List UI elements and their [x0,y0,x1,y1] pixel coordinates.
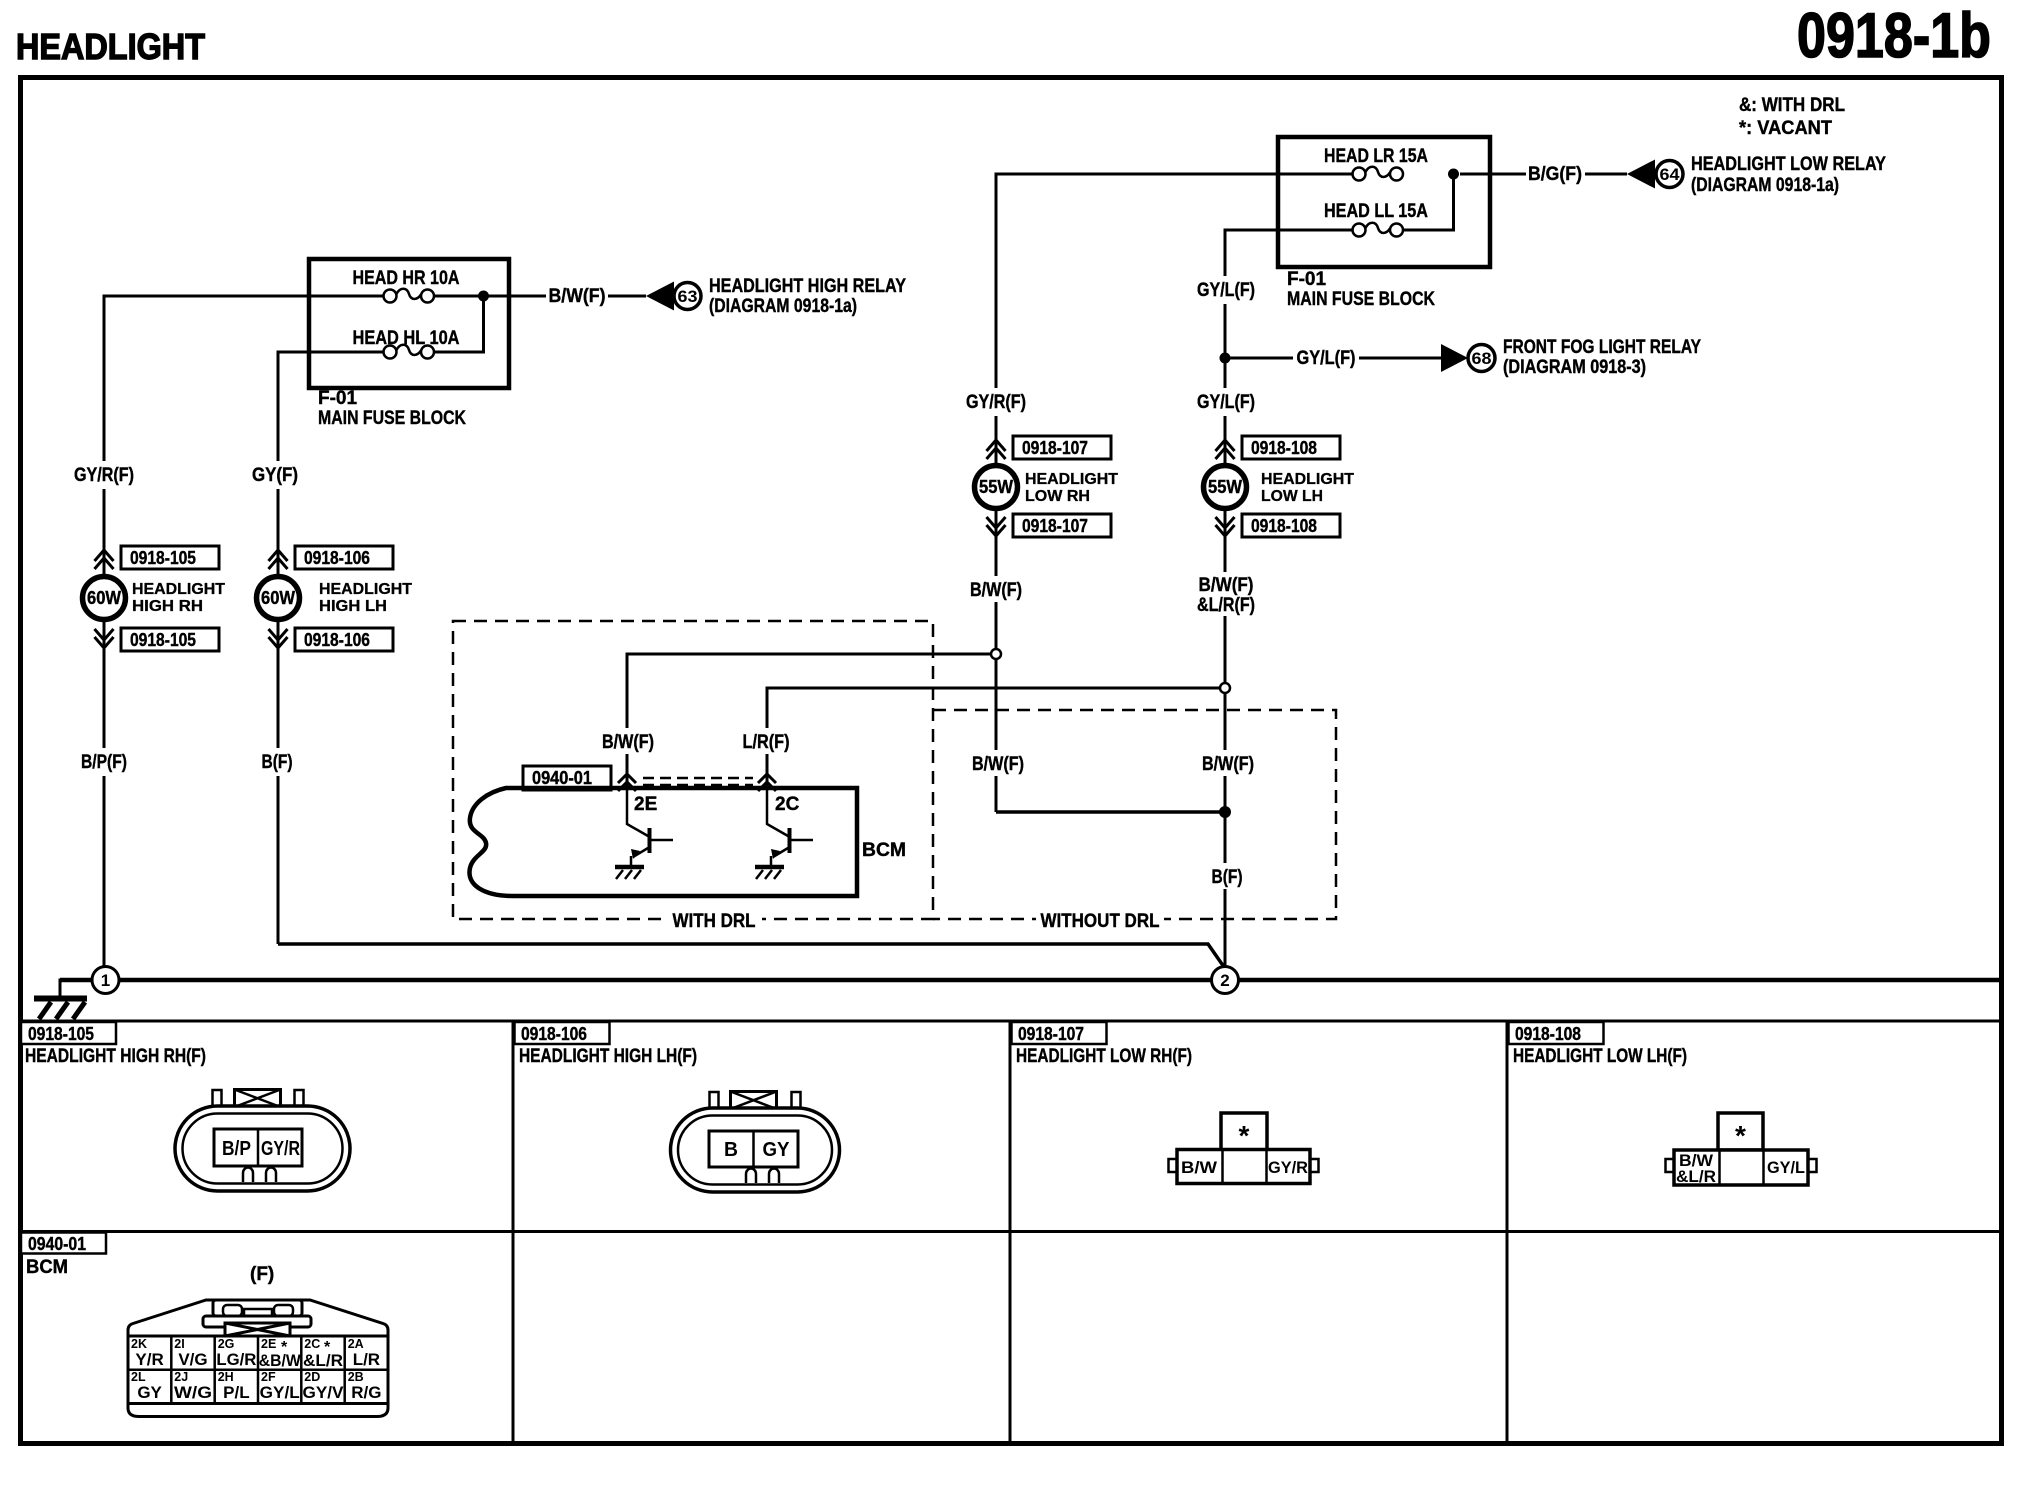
svg-text:0918-107: 0918-107 [1022,438,1088,458]
svg-text:GY/R: GY/R [261,1138,300,1160]
bulb headlight high RH 60W [83,577,226,620]
table column divider 2 [1009,1021,1012,1443]
tag box 0940-01 [21,1233,106,1254]
transistor Q 2C [755,790,813,879]
svg-text:GY: GY [763,1139,791,1161]
junction dot low RH meets low LH [1219,806,1231,818]
svg-text:BCM: BCM [26,1257,68,1278]
svg-text:V/G: V/G [178,1350,207,1369]
svg-text:0918-106: 0918-106 [304,630,370,650]
svg-text:0918-107: 0918-107 [1018,1024,1084,1044]
svg-text:HIGH LH: HIGH LH [319,598,387,615]
connector box 0918-105 lower [121,628,219,651]
svg-text:0918-107: 0918-107 [1022,516,1088,536]
svg-text:HEADLIGHT HIGH RELAY: HEADLIGHT HIGH RELAY [709,276,906,297]
svg-text:0918-108: 0918-108 [1251,438,1317,458]
wire label B/W(F) low RH [984,576,1009,602]
connector box 0918-107 upper [1013,436,1111,459]
svg-text:HEADLIGHT: HEADLIGHT [1025,471,1119,488]
svg-text:0918-105: 0918-105 [130,630,196,650]
svg-text:0918-108: 0918-108 [1515,1024,1581,1044]
svg-text:2F: 2F [261,1370,276,1384]
relay arrow 64 headlight low relay [1627,154,1886,196]
fuse HEAD HR 10A [353,268,460,303]
svg-text:0918-108: 0918-108 [1251,516,1317,536]
svg-text:0940-01: 0940-01 [532,768,592,788]
svg-text:HEADLIGHT HIGH RH(F): HEADLIGHT HIGH RH(F) [25,1046,206,1067]
table row divider [18,1230,2001,1233]
svg-text:2B: 2B [348,1370,364,1384]
wire label B(F) low LH [1214,863,1238,889]
relay arrow 63 headlight high relay [646,276,906,317]
svg-text:B/P(F): B/P(F) [81,752,127,773]
table top line [18,1020,2001,1023]
latch lower with bowtie [203,1316,311,1327]
connector drawing 0918-108 (T 3-pin) [1666,1113,1817,1186]
svg-text:LG/R: LG/R [216,1350,256,1369]
connector box 0940-01 [523,766,611,790]
connector chevrons at BCM pin 2C [758,774,776,791]
fuse block F-01 (left) [309,259,509,388]
wire low RH to junction on low LH line [996,810,1225,814]
fuse block F-01 (right) [1278,137,1490,267]
wire B/W(F) from BCM 2E to low RH [627,654,991,790]
wire label B(F) high LH [266,748,290,776]
svg-text:*: * [1735,1120,1746,1151]
wire label GY/L(F) on fog branch [1293,346,1359,370]
connector drawing 0918-107 (T 3-pin) [1169,1113,1319,1184]
fuse HEAD HL 10A [353,328,460,359]
connector drawing 0918-106 (oval 2-pin) [671,1092,840,1193]
svg-text:GY/R: GY/R [1268,1158,1308,1177]
ground stem wire [60,980,91,996]
svg-text:64: 64 [1660,165,1681,184]
pin grid [128,1336,388,1404]
svg-text:&L/R(F): &L/R(F) [1197,595,1255,616]
junction dot fog relay branch [1220,353,1231,364]
bulb headlight low RH 55W [975,466,1119,509]
svg-text:GY/R(F): GY/R(F) [74,465,134,486]
bulb headlight high LH 60W [257,577,413,620]
svg-text:B/W(F): B/W(F) [602,732,654,753]
connector chevrons below bulb high RH [95,629,114,648]
svg-text:60W: 60W [261,588,295,608]
node junction low RH to DRL wire (open) [991,649,1001,659]
connector box 0918-106 upper [295,546,393,569]
svg-text:63: 63 [678,287,698,306]
svg-text:GY/L: GY/L [1767,1158,1805,1177]
wire label L/R(F) at 2C [755,728,780,754]
connector drawing 0918-105 (oval 2-pin) [175,1090,350,1192]
wire label B/W(F) low RH lower [984,750,1009,776]
svg-text:F-01: F-01 [318,388,358,409]
svg-text:0918-106: 0918-106 [304,548,370,568]
svg-text:2K: 2K [131,1337,147,1351]
wire L/R(F) from BCM 2C to low LH [767,688,1220,790]
ground symbol (chassis earth) [34,999,87,1020]
node junction low LH to DRL wire (open) [1220,683,1230,693]
BCM box [469,788,857,896]
junction dot fuse1 output [478,291,489,302]
svg-text:GY/L: GY/L [260,1383,300,1402]
svg-text:BCM: BCM [862,840,906,861]
tag box 0918-106 [515,1022,610,1044]
svg-text:HEADLIGHT HIGH LH(F): HEADLIGHT HIGH LH(F) [519,1046,697,1067]
connector box 0918-108 lower [1242,514,1340,537]
ground bus wire [60,978,2001,983]
svg-text:HEADLIGHT LOW RH(F): HEADLIGHT LOW RH(F) [1016,1046,1192,1067]
transistor Q 2E [615,790,673,879]
connector chevrons above bulb high RH [95,550,114,569]
svg-text:P/L: P/L [223,1383,249,1402]
svg-text:(DIAGRAM 0918-1a): (DIAGRAM 0918-1a) [1691,175,1839,196]
connector box 0918-105 upper [121,546,219,569]
svg-text:B/W(F): B/W(F) [972,754,1024,775]
svg-text:2D: 2D [304,1370,320,1384]
svg-text:HEADLIGHT LOW LH(F): HEADLIGHT LOW LH(F) [1513,1046,1687,1067]
svg-text:&L/R: &L/R [1676,1167,1716,1186]
wire label GY/R(F) low RH [985,388,1009,416]
svg-text:2: 2 [1220,971,1229,990]
dashed box WITHOUT DRL [933,710,1336,932]
dashed connector link between 2E and 2C [643,778,753,785]
wire label B/W(F) &L/R(F) low LH [1213,572,1238,616]
wire fuse HEAD HL to junction [434,296,484,352]
svg-text:WITHOUT DRL: WITHOUT DRL [1041,911,1160,932]
svg-text:1: 1 [101,971,110,990]
svg-text:L/R(F): L/R(F) [743,732,790,753]
relay arrow 68 front fog light relay [1441,337,1701,378]
svg-text:55W: 55W [979,477,1013,497]
svg-text:LOW LH: LOW LH [1261,488,1323,505]
svg-text:B/G(F): B/G(F) [1528,164,1582,185]
wire label GY/L(F) low LH upper [1214,276,1238,304]
svg-text:GY: GY [137,1383,162,1402]
tag box 0918-105 [21,1022,116,1044]
wire label GY(F) high LH [267,461,291,489]
svg-text:GY(F): GY(F) [252,465,298,486]
wire fuse HEAD LL to junction [1403,174,1454,230]
svg-text:R/G: R/G [351,1383,381,1402]
svg-text:W/G: W/G [174,1383,212,1402]
svg-text:GY/L(F): GY/L(F) [1197,392,1255,413]
svg-text:HEADLIGHT: HEADLIGHT [16,26,205,67]
svg-text:(F): (F) [250,1264,274,1285]
svg-text:LOW RH: LOW RH [1025,488,1090,505]
svg-text:GY/R(F): GY/R(F) [966,392,1026,413]
svg-text:&B/W: &B/W [259,1351,302,1370]
svg-text:HEAD HR 10A: HEAD HR 10A [353,268,460,289]
svg-text:MAIN FUSE BLOCK: MAIN FUSE BLOCK [1287,289,1435,310]
wire GY/L(F) to front fog light relay 68 [1225,357,1441,360]
svg-text:2C: 2C [775,794,800,815]
wire label GY/L(F) low LH lower [1214,388,1238,416]
svg-text:0918-105: 0918-105 [28,1024,94,1044]
wire label GY/R(F) high RH [93,461,117,489]
wire label B/W(F) [546,284,608,307]
fuse HEAD LL 15A [1324,201,1428,237]
connector box 0918-106 lower [295,628,393,651]
bottom lip [128,1404,388,1417]
svg-text:&: WITH DRL: &: WITH DRL [1739,95,1845,116]
svg-text:MAIN FUSE BLOCK: MAIN FUSE BLOCK [318,408,466,429]
svg-text:2I: 2I [174,1337,184,1351]
connector chevrons at BCM pin 2E [618,774,636,791]
svg-text:0918-1b: 0918-1b [1797,1,1991,71]
svg-text:2L: 2L [131,1370,146,1384]
wire label B/P(F) [93,748,117,776]
svg-text:HEADLIGHT: HEADLIGHT [319,581,413,598]
svg-text:2E: 2E [634,794,657,815]
svg-text:WITH DRL: WITH DRL [673,911,756,932]
connector chevrons below bulb low RH [987,517,1006,536]
svg-text:B/W: B/W [1181,1158,1218,1177]
svg-text:68: 68 [1472,349,1492,368]
svg-text:2A: 2A [348,1337,364,1351]
wire B/W(F) fuse1 output to relay 63 [434,295,646,298]
tag box 0918-107 [1012,1022,1107,1044]
wire GY/R(F) from HEAD HR fuse to headlight high RH [104,296,383,966]
svg-text:55W: 55W [1208,477,1242,497]
connector chevrons below bulb high LH [269,629,288,648]
wire label B/W(F) at 2E [615,728,640,754]
wire B(F) high LH to ground point 2 [278,944,1224,967]
svg-text:60W: 60W [87,588,121,608]
wire B/G(F) fuse2 output to relay 64 [1460,173,1627,176]
svg-text:&L/R: &L/R [303,1351,343,1370]
svg-text:HEAD LR 15A: HEAD LR 15A [1324,146,1428,167]
wire GY(F) from HEAD HL fuse to headlight high LH [278,352,383,944]
svg-text:B: B [724,1139,738,1161]
svg-text:HEADLIGHT LOW RELAY: HEADLIGHT LOW RELAY [1691,154,1886,175]
svg-text:FRONT FOG LIGHT RELAY: FRONT FOG LIGHT RELAY [1503,337,1701,358]
svg-text:HEAD LL 15A: HEAD LL 15A [1324,201,1428,222]
svg-text:HEADLIGHT: HEADLIGHT [1261,471,1355,488]
svg-text:GY/L(F): GY/L(F) [1297,348,1356,369]
connector chevrons above bulb low LH [1216,440,1235,459]
connector chevrons above bulb low RH [987,440,1006,459]
housing silhouette [128,1300,388,1336]
bulb headlight low LH 55W [1204,466,1355,509]
connector box 0918-108 upper [1242,436,1340,459]
svg-text:*: VACANT: *: VACANT [1739,118,1832,139]
svg-text:B(F): B(F) [1212,867,1243,888]
svg-text:GY/L(F): GY/L(F) [1197,280,1255,301]
svg-text:B(F): B(F) [262,752,293,773]
svg-text:(DIAGRAM 0918-3): (DIAGRAM 0918-3) [1503,357,1646,378]
svg-text:(DIAGRAM 0918-1a): (DIAGRAM 0918-1a) [709,296,857,317]
svg-text:2G: 2G [218,1337,235,1351]
svg-text:HEADLIGHT: HEADLIGHT [132,581,226,598]
latch upper tabs [213,1300,302,1316]
table column divider 3 [1506,1021,1509,1443]
connector box 0918-107 lower [1013,514,1111,537]
svg-text:B/W(F): B/W(F) [1202,754,1254,775]
wire label B/G(F) [1526,162,1585,185]
dashed box WITH DRL [453,621,933,932]
svg-text:2H: 2H [218,1370,234,1384]
svg-text:L/R: L/R [353,1350,380,1369]
junction dot fuse2 output [1448,169,1459,180]
table column divider 1 [512,1021,515,1443]
svg-text:B/W(F): B/W(F) [549,286,606,307]
connector chevrons below bulb low LH [1216,517,1235,536]
svg-text:0940-01: 0940-01 [28,1234,86,1254]
svg-text:B/W(F): B/W(F) [1199,575,1254,596]
svg-text:GY/V: GY/V [303,1383,345,1402]
svg-text:*: * [1239,1120,1250,1151]
wire GY/R(F) from HEAD LR fuse to headlight low RH [996,174,1352,812]
tag box 0918-108 [1509,1022,1604,1044]
svg-text:2E: 2E [261,1337,276,1351]
svg-text:B/W(F): B/W(F) [970,580,1022,601]
svg-text:2C: 2C [304,1337,320,1351]
wire GY/L(F) from HEAD LL fuse to headlight low LH [1225,230,1352,966]
wire label B/W(F) low LH lower [1213,750,1238,776]
svg-text:B/P: B/P [222,1138,251,1160]
svg-text:2J: 2J [174,1370,188,1384]
svg-text:0918-106: 0918-106 [521,1024,587,1044]
connector drawing 0940-01 BCM (F) [128,1300,388,1417]
fuse HEAD LR 15A [1324,146,1428,181]
ground point circle 2 [1212,967,1239,994]
svg-text:Y/R: Y/R [135,1350,163,1369]
svg-text:HIGH RH: HIGH RH [132,598,203,615]
connector chevrons above bulb high LH [269,550,288,569]
svg-text:0918-105: 0918-105 [130,548,196,568]
svg-text:F-01: F-01 [1287,269,1327,290]
ground point circle 1 [92,967,119,994]
